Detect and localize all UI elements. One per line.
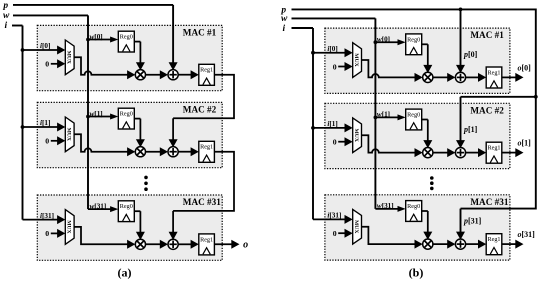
svg-text:Reg1: Reg1 [200, 236, 213, 243]
svg-text:MAC #31: MAC #31 [470, 197, 508, 207]
svg-text:i[31]: i[31] [327, 212, 341, 220]
svg-text:i[1]: i[1] [40, 119, 50, 127]
svg-text:o[1]: o[1] [518, 139, 532, 148]
svg-text:(a): (a) [118, 266, 132, 280]
svg-text:0: 0 [333, 62, 337, 71]
svg-text:MUX: MUX [353, 53, 359, 66]
svg-text:Reg1: Reg1 [200, 144, 213, 151]
svg-text:0: 0 [45, 137, 49, 146]
svg-text:w: w [281, 14, 288, 24]
svg-text:Reg1: Reg1 [200, 67, 213, 74]
svg-text:MAC #2: MAC #2 [183, 104, 217, 114]
svg-text:o[0]: o[0] [518, 64, 532, 73]
svg-text:Reg0: Reg0 [120, 111, 133, 118]
svg-text:Reg1: Reg1 [487, 145, 500, 152]
svg-text:i[31]: i[31] [40, 212, 54, 220]
svg-text:i[0]: i[0] [40, 42, 50, 50]
svg-text:p[1]: p[1] [463, 125, 478, 134]
svg-text:Reg0: Reg0 [407, 203, 420, 210]
svg-text:Reg0: Reg0 [120, 34, 133, 41]
svg-text:0: 0 [45, 229, 49, 238]
svg-text:o: o [243, 239, 248, 250]
svg-text:0: 0 [45, 60, 49, 69]
svg-text:0: 0 [333, 138, 337, 147]
svg-text:o[31]: o[31] [518, 230, 536, 239]
svg-text:MAC #2: MAC #2 [470, 105, 504, 115]
svg-text:w[31]: w[31] [377, 202, 394, 210]
svg-text:MUX: MUX [353, 220, 359, 233]
svg-text:Reg0: Reg0 [407, 36, 420, 43]
svg-text:MAC #31: MAC #31 [183, 197, 221, 207]
svg-text:w: w [3, 11, 10, 21]
svg-text:w[31]: w[31] [90, 202, 107, 210]
svg-text:i[0]: i[0] [327, 45, 337, 53]
svg-text:w[0]: w[0] [90, 33, 103, 41]
svg-text:MAC #1: MAC #1 [470, 30, 504, 40]
svg-text:MUX: MUX [66, 220, 72, 233]
svg-text:MUX: MUX [66, 51, 72, 64]
svg-text:p[31]: p[31] [463, 217, 482, 226]
svg-text:w[1]: w[1] [377, 111, 390, 119]
svg-text:MUX: MUX [66, 128, 72, 141]
svg-text:MUX: MUX [353, 129, 359, 142]
svg-text:p[0]: p[0] [463, 50, 478, 59]
svg-text:i: i [282, 24, 285, 34]
svg-text:0: 0 [333, 229, 337, 238]
svg-text:Reg1: Reg1 [487, 69, 500, 76]
svg-text:p: p [2, 1, 8, 11]
svg-text:w[1]: w[1] [90, 110, 103, 118]
svg-text:w[0]: w[0] [377, 36, 390, 44]
svg-text:MAC #1: MAC #1 [183, 27, 217, 37]
svg-text:(b): (b) [409, 266, 424, 280]
svg-text:Reg1: Reg1 [487, 236, 500, 243]
svg-text:i: i [4, 21, 7, 31]
svg-text:Reg0: Reg0 [407, 112, 420, 119]
svg-text:i[1]: i[1] [327, 120, 337, 128]
svg-text:Reg0: Reg0 [120, 203, 133, 210]
